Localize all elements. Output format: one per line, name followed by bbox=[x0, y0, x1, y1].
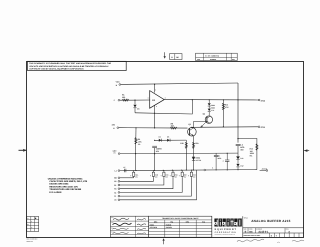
terminal AC215 stub bbox=[260, 167, 268, 171]
resistor R9 100 bbox=[170, 122, 177, 129]
svg-text:DRN: DRN bbox=[111, 217, 114, 219]
svg-text:COPYRIGHT 1968 BY DIGITAL EQUI: COPYRIGHT 1968 BY DIGITAL EQUIPMENT CORP… bbox=[29, 68, 84, 71]
diode D6 D662 bbox=[192, 157, 202, 162]
node mid R2 junction bbox=[135, 153, 136, 154]
terminal GND 7C bbox=[113, 150, 120, 155]
svg-text:35V: 35V bbox=[184, 176, 187, 178]
svg-text:M2: M2 bbox=[114, 177, 117, 180]
logo digital equipment corporation bbox=[212, 216, 243, 237]
diode D12 bbox=[236, 164, 243, 170]
svg-text:D12: D12 bbox=[240, 165, 243, 168]
svg-text:35V: 35V bbox=[165, 176, 168, 178]
node diode branch tap bbox=[154, 140, 155, 141]
svg-text:R1: R1 bbox=[114, 188, 116, 191]
node R13 bottom junction bbox=[223, 126, 224, 127]
node Q3 collector junction bbox=[191, 127, 192, 128]
wire output rail bbox=[164, 99, 258, 101]
svg-text:D11: D11 bbox=[240, 157, 243, 160]
terminal E -15V bbox=[111, 124, 118, 130]
terminal row bottom connector pins bbox=[114, 170, 196, 202]
wire Q3 emitter leg bbox=[193, 136, 195, 170]
node feedback crossing bbox=[154, 113, 155, 114]
svg-text:A215-0-1: A215-0-1 bbox=[258, 230, 269, 233]
svg-text:35V: 35V bbox=[155, 176, 158, 178]
wire Q3 to Q2 base bbox=[193, 122, 207, 128]
svg-text:2N3639: 2N3639 bbox=[166, 226, 172, 229]
svg-text:CORPORATION: CORPORATION bbox=[215, 231, 237, 234]
resistor R14 100 bbox=[238, 139, 258, 170]
revision mini table bbox=[27, 217, 39, 232]
printed circuit rev row bbox=[244, 233, 299, 237]
node output feedback tap bbox=[192, 99, 193, 100]
wire mid branch bbox=[120, 152, 238, 155]
svg-text:CODE: CODE bbox=[249, 229, 253, 231]
node output D9 tap bbox=[209, 99, 210, 100]
svg-text:B: B bbox=[245, 230, 247, 233]
svg-text:TRANSISTOR & DIODE CONVERSION: TRANSISTOR & DIODE CONVERSION CHART bbox=[162, 217, 200, 220]
right edge registration arrow bbox=[304, 149, 309, 152]
svg-text:D664: D664 bbox=[211, 104, 215, 107]
transistor Q3 bbox=[188, 123, 197, 136]
svg-text:U1: U1 bbox=[114, 199, 116, 202]
svg-text:5%: 5% bbox=[250, 155, 253, 158]
svg-text:ENG: ENG bbox=[111, 227, 114, 229]
svg-text:REV: REV bbox=[232, 59, 235, 61]
svg-text:D662: D662 bbox=[211, 107, 215, 110]
bottom registration arrow bbox=[162, 238, 164, 244]
terminal H VCC bbox=[116, 80, 121, 87]
resistor R1 100 bbox=[122, 93, 129, 101]
svg-text:THIS SCHEMATIC IS FURNISHED ON: THIS SCHEMATIC IS FURNISHED ONLY FOR TES… bbox=[29, 62, 111, 65]
drawing number row bbox=[243, 228, 304, 234]
top registration arrow bbox=[164, 52, 166, 58]
svg-text:E IS LARGE: E IS LARGE bbox=[49, 191, 62, 194]
resistor Q3 emitter 1.5K bbox=[193, 142, 200, 149]
wire VEE rail bbox=[119, 127, 188, 129]
wire VCC rail bbox=[121, 83, 238, 84]
node rail junctions bbox=[135, 169, 238, 171]
svg-text:4TJ2: 4TJ2 bbox=[261, 99, 265, 102]
wire F input bbox=[120, 99, 150, 101]
svg-text:.1: .1 bbox=[222, 159, 223, 162]
wire ground rail bbox=[123, 170, 257, 171]
title text ANALOG BUFFER A215 bbox=[244, 217, 291, 223]
resistor R2 1.5K bbox=[135, 128, 142, 154]
svg-text:L1: L1 bbox=[115, 169, 117, 172]
svg-text:TITLE: TITLE bbox=[244, 217, 248, 219]
svg-text:D664: D664 bbox=[150, 223, 154, 226]
wire GND drop to rail bbox=[135, 154, 137, 171]
capacitor C7 in rail bbox=[123, 166, 126, 172]
capacitor C3 .01MFD bbox=[214, 153, 222, 170]
svg-text:Q3: Q3 bbox=[188, 123, 190, 126]
capacitor C5 1.0MFD 35V bbox=[236, 144, 245, 157]
disclaimer notice box bbox=[28, 61, 127, 70]
svg-text:CAPACITORS ARE MMFD; DELY, 4TB: CAPACITORS ARE MMFD; DELY, 4TB bbox=[49, 180, 87, 183]
svg-text:ANALOG BUFFER A215: ANALOG BUFFER A215 bbox=[251, 219, 290, 223]
svg-text:TRANSISTORS ARE DEC3639B: TRANSISTORS ARE DEC3639B bbox=[49, 188, 81, 191]
svg-text:35V: 35V bbox=[135, 176, 138, 178]
svg-text:NUMBER: NUMBER bbox=[210, 59, 216, 61]
svg-text:DIODES ARE D664: DIODES ARE D664 bbox=[49, 183, 69, 186]
transistor Q2 bbox=[201, 113, 213, 128]
svg-text:100: 100 bbox=[122, 96, 125, 99]
svg-text:S1: S1 bbox=[114, 191, 116, 194]
svg-text:MAYNARD, MASSACHUSETTS: MAYNARD, MASSACHUSETTS bbox=[215, 234, 235, 236]
wire op-amp power pin bbox=[154, 84, 156, 92]
top drawing number strip bbox=[196, 53, 238, 61]
wire Q2 emitter rail bbox=[192, 126, 258, 129]
op-amp E1 bbox=[148, 88, 166, 108]
node mid C1 crossing bbox=[154, 153, 155, 154]
wire Q3 collector bbox=[192, 126, 194, 129]
svg-text:35V: 35V bbox=[175, 176, 178, 178]
svg-text:D662: D662 bbox=[196, 157, 200, 160]
diode D1 bbox=[133, 100, 139, 113]
diode D9 D664 bbox=[208, 100, 215, 107]
transistor and diode conversion chart bbox=[149, 216, 212, 237]
left edge registration tick bbox=[19, 149, 27, 152]
title block signature section bbox=[111, 216, 149, 237]
node output rail crossing bbox=[237, 99, 238, 100]
node R14 tap bbox=[237, 138, 238, 139]
capacitor C2 .1 bbox=[222, 153, 229, 170]
svg-text:UNLESS OTHERWISE INDICATED;: UNLESS OTHERWISE INDICATED; bbox=[48, 177, 83, 180]
svg-text:35V: 35V bbox=[193, 176, 196, 178]
svg-text:EQUIPMENT: EQUIPMENT bbox=[215, 228, 237, 231]
diode D5 bbox=[167, 136, 170, 142]
node VCC op-amp tap bbox=[154, 84, 155, 85]
sheet border frame bbox=[27, 62, 304, 238]
node F junction bbox=[134, 100, 135, 101]
svg-text:BS: BS bbox=[249, 230, 253, 233]
wire diode branch bbox=[155, 139, 187, 141]
node Q2 emitter junction bbox=[200, 127, 201, 128]
wire op-amp bottom pin bbox=[154, 105, 156, 128]
wire VCC right drop bbox=[237, 83, 239, 143]
test point on ground rail bbox=[204, 167, 214, 171]
svg-text:DEC3639: DEC3639 bbox=[150, 226, 157, 229]
terminal output jack 4TJ2 bbox=[258, 99, 265, 102]
svg-text:RESISTORS ARE 1/4W; 10%: RESISTORS ARE 1/4W; 10% bbox=[49, 185, 78, 188]
notes text block bbox=[48, 177, 88, 194]
node VEE R2 tap bbox=[135, 127, 136, 128]
svg-text:Q2: Q2 bbox=[203, 113, 205, 116]
svg-text:D5: D5 bbox=[167, 136, 169, 139]
node mid C2 tap bbox=[227, 153, 228, 154]
resistor R7 1.5K bbox=[180, 140, 187, 170]
diode D11 bbox=[236, 156, 243, 163]
svg-text:SIZE: SIZE bbox=[197, 59, 200, 61]
svg-text:T1: T1 bbox=[114, 195, 116, 198]
resistor R13 4.7K bbox=[222, 100, 229, 127]
diode D10 D662 bbox=[208, 106, 215, 116]
handwritten annotation bottom right bbox=[237, 239, 304, 242]
svg-text:100: 100 bbox=[171, 125, 174, 128]
wire feedback loop bbox=[135, 100, 192, 114]
capacitor C1 10MFD 20V bbox=[152, 146, 162, 170]
node VEE op-amp tap bbox=[154, 127, 155, 128]
svg-text:IN3606: IN3606 bbox=[166, 223, 172, 226]
svg-text:1%: 1% bbox=[138, 143, 141, 146]
terminal F input bbox=[114, 99, 120, 102]
svg-text:D4: D4 bbox=[159, 136, 161, 139]
top revision strip box bbox=[170, 54, 182, 60]
diode D4 bbox=[159, 136, 162, 142]
svg-text:D1: D1 bbox=[137, 107, 139, 110]
terminal ground rail left bbox=[115, 169, 124, 172]
svg-text:CIRCUITS ARE PROPRIETARY IN NA: CIRCUITS ARE PROPRIETARY IN NATURE AND S… bbox=[29, 65, 109, 68]
svg-text:P1: P1 bbox=[114, 184, 116, 187]
svg-text:C - B - A215-0-1: C - B - A215-0-1 bbox=[205, 55, 219, 58]
svg-text:VCC: VCC bbox=[116, 80, 121, 83]
bypass capacitor row bbox=[130, 170, 196, 178]
svg-text:N1: N1 bbox=[114, 180, 116, 183]
node output R13 tap bbox=[223, 99, 224, 100]
terminal jack 4TJ1 bbox=[258, 126, 266, 129]
svg-text:AC215: AC215 bbox=[262, 167, 267, 170]
form number text bbox=[27, 238, 38, 243]
